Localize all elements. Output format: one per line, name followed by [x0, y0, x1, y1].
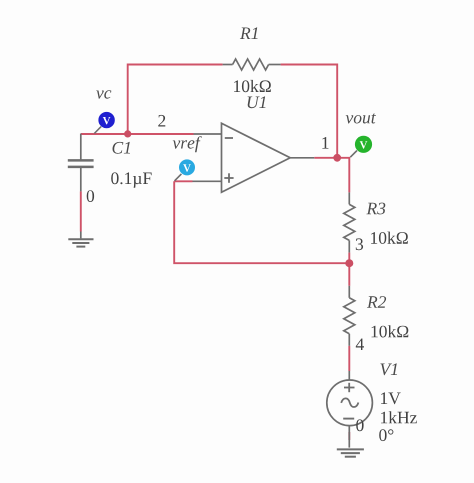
- label node 0 right: [356, 419, 363, 431]
- label V1 value 1V: [381, 392, 401, 404]
- label node 2: [158, 115, 165, 127]
- wire vref: plus input corner down and right to node 3: [174, 181, 349, 263]
- label net vref: [173, 136, 202, 152]
- wire node 4: R2 to V1: [348, 346, 350, 371]
- wire vref stub to plus pin: [174, 180, 192, 182]
- resistor R1: [223, 59, 281, 70]
- wire top-right: from R1 along top rail down to output node 1: [281, 65, 338, 158]
- wire top-left: from node 2 junction up and along top rail to R1: [128, 65, 223, 135]
- label R2: [367, 296, 386, 308]
- AC source V1: [327, 371, 373, 448]
- label C1: [113, 142, 131, 154]
- node junction dot node 3: [345, 259, 353, 267]
- ground left (node 0): [68, 232, 93, 247]
- label V1 value 0°: [379, 429, 393, 441]
- label R2 value 10kΩ: [372, 325, 409, 337]
- label node 0 left: [87, 190, 94, 202]
- probe vref letter V: [183, 164, 191, 171]
- wire node 2 horizontal run: capacitor top to op-amp minus input: [81, 133, 194, 135]
- resistor R2: [344, 286, 355, 346]
- wire output node 1: op-amp output to corner and down to R3: [314, 158, 349, 193]
- wire node 0 right: V1 bottom to ground: [348, 432, 350, 440]
- probe vout (green): [350, 136, 372, 158]
- label node 1: [322, 137, 328, 149]
- label R1: [240, 27, 258, 39]
- label R3 value 10kΩ: [371, 232, 408, 244]
- label U1: [248, 96, 266, 108]
- resistor R3: [344, 192, 355, 252]
- label net vc: [96, 90, 111, 98]
- wire node 3 to R2: [348, 263, 350, 286]
- label C1 value 0.1µF: [111, 172, 151, 187]
- probe vc (blue): [94, 112, 115, 134]
- label node 3: [356, 238, 363, 250]
- wire R3 bottom lead to node 3: [348, 253, 350, 264]
- node junction dot node 2: [124, 130, 131, 137]
- label node 4: [356, 339, 364, 351]
- ground right (node 0): [337, 449, 364, 456]
- label R1 value 10kΩ: [234, 80, 271, 92]
- label R3: [366, 203, 385, 215]
- wire node 0 left: capacitor bottom to ground: [80, 191, 82, 231]
- label V1: [380, 363, 397, 375]
- probe vc letter V: [103, 117, 111, 124]
- probe vref (cyan): [175, 159, 195, 180]
- op-amp U1: [193, 123, 315, 192]
- label net vout: [346, 113, 376, 123]
- capacitor C1: [68, 134, 94, 192]
- probe vout letter V: [360, 141, 368, 148]
- label V1 value 1kHz: [381, 411, 417, 423]
- node junction dot node 1: [333, 154, 341, 162]
